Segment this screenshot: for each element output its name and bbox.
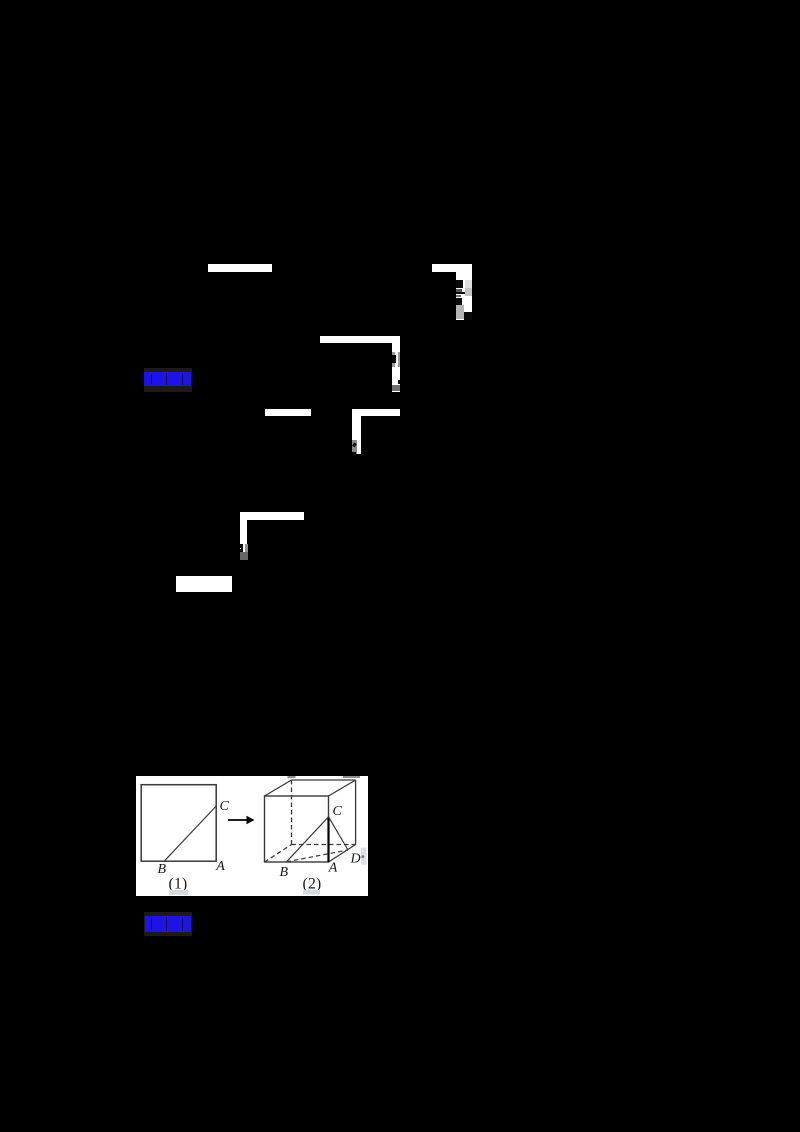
formula patch C horizontal strip — [320, 336, 400, 344]
black corner mark — [464, 312, 472, 320]
right gray column — [398, 352, 400, 367]
fraction denominator mark — [456, 298, 462, 305]
cube hidden back-left vertical (dashed) — [291, 780, 293, 845]
formula patch B vertical strip (fraction 2/3) — [456, 271, 473, 320]
gray mark — [456, 289, 462, 292]
cube back top edge — [292, 779, 356, 781]
gray smudge under (2) — [303, 890, 320, 895]
fraction bar mark — [456, 292, 465, 294]
svg-text:C: C — [220, 799, 230, 814]
small glyph mark — [392, 355, 396, 363]
cube top-left edge — [265, 780, 292, 796]
formula patch B horizontal strip — [432, 264, 472, 272]
svg-text:C: C — [333, 804, 343, 819]
light gray column upper — [465, 280, 472, 288]
svg-text:A: A — [328, 860, 338, 875]
slash mark upper — [352, 442, 357, 447]
cube top-right edge — [329, 780, 356, 796]
formula patch C vertical strip — [392, 343, 400, 391]
fold line BD (dashed) — [287, 850, 349, 862]
cube front face — [265, 796, 329, 862]
fold edge CA (bold) — [327, 817, 329, 862]
glyph gap — [151, 918, 153, 930]
white notch in glyph — [240, 548, 241, 550]
figure 1 diagonal BC — [164, 806, 216, 861]
glyph gap — [182, 918, 183, 931]
fraction numerator mark — [456, 280, 463, 288]
gray smudge top right — [343, 776, 360, 778]
gray column lower — [392, 363, 395, 368]
formula patch E horizontal strip — [352, 409, 400, 416]
gray smudge under (1) — [169, 890, 188, 895]
svg-text:(2): (2) — [303, 876, 322, 893]
gray smudge top left — [288, 776, 296, 778]
blue glyph band 1 — [144, 372, 191, 386]
answer label box 1 (blue) — [144, 368, 192, 392]
glyph gap — [151, 374, 153, 384]
formula patch F horizontal strip — [240, 512, 304, 520]
formula patch E vertical strip — [352, 416, 360, 455]
cube bottom right edge — [329, 845, 356, 863]
gray column — [245, 544, 248, 552]
glyph gap — [166, 373, 167, 385]
figure 1 square — [141, 785, 216, 862]
slash mark lower — [352, 452, 356, 455]
glyph gap — [182, 374, 183, 385]
cube hidden back bottom edge (dashed) — [292, 844, 356, 846]
svg-text:A: A — [215, 859, 225, 874]
cube hidden left bottom edge (dashed) — [265, 845, 292, 863]
glyph gap — [166, 917, 167, 931]
blue glyph band 2 — [145, 916, 192, 932]
cube back right vertical edge — [355, 780, 357, 845]
bottom gray square — [392, 385, 400, 391]
dark gray base — [240, 552, 248, 560]
svg-text:B: B — [280, 865, 289, 880]
light gray column lower — [465, 288, 472, 296]
black notch — [398, 380, 400, 384]
blank rect G — [176, 576, 232, 592]
gray smudge right of D — [361, 848, 367, 865]
blue dot near D — [361, 855, 364, 858]
formula patch F vertical strip — [240, 520, 247, 560]
svg-text:D: D — [350, 852, 361, 867]
gray mark — [456, 295, 462, 297]
arrow — [228, 819, 248, 821]
gray blob — [456, 305, 464, 319]
gray column upper — [392, 352, 395, 355]
gray block — [352, 440, 356, 454]
fold line CB — [287, 817, 329, 862]
blank strip A (line 1) — [208, 264, 272, 272]
fold line CD — [329, 817, 349, 850]
answer label box 2 (blue) — [144, 912, 192, 936]
figure panel (square unfolding to cube) — [136, 776, 368, 896]
blank strip D — [265, 409, 311, 416]
black glyph mark — [240, 544, 243, 556]
svg-text:B: B — [158, 862, 167, 877]
